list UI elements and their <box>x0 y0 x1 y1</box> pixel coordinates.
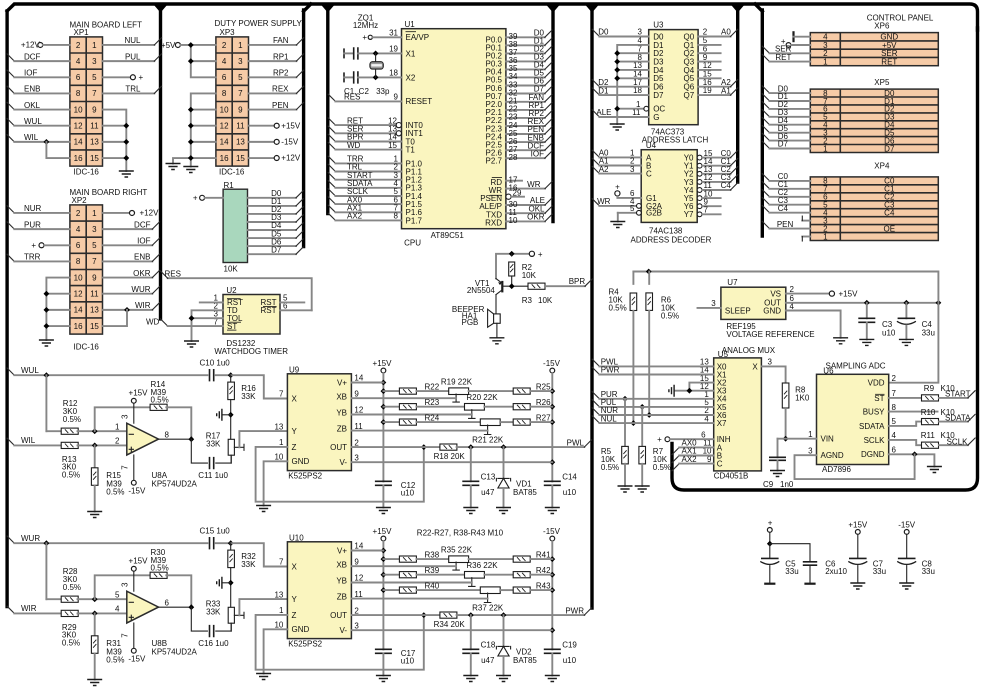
svg-text:1: 1 <box>823 232 828 241</box>
svg-text:C4: C4 <box>778 204 789 213</box>
svg-text:Z: Z <box>292 611 297 620</box>
svg-text:3: 3 <box>808 446 813 455</box>
resistor R8 1K0 <box>782 383 810 442</box>
svg-text:3: 3 <box>630 165 635 174</box>
wire WUL input <box>7 366 207 378</box>
svg-text:5: 5 <box>92 241 97 250</box>
U6 name AD7896 <box>822 465 851 474</box>
terminal + at EA/VP <box>362 33 401 42</box>
wire REX from XP3 <box>249 85 304 94</box>
connector XP2 label IDC-16 <box>74 343 100 352</box>
cable bus at x304 (FAN..PEN, D0-D7 of R1) <box>302 10 305 247</box>
resistor R31 M39 0.5% <box>91 613 124 679</box>
svg-text:G: G <box>653 113 659 122</box>
wire D1 from CPU pin 38 P0.1 <box>486 37 552 53</box>
svg-text:0.5%: 0.5% <box>661 312 679 321</box>
wire U2 pin5 stub <box>280 301 304 303</box>
wire U3 Q1 stub <box>698 44 721 46</box>
svg-text:10: 10 <box>274 621 283 630</box>
wire ALE from CPU pin 30 <box>479 196 552 211</box>
wire SDATA to CPU pin 4 P1.3 <box>328 179 422 193</box>
svg-text:WATCHDOG TIMER: WATCHDOG TIMER <box>214 347 288 356</box>
svg-text:11: 11 <box>90 290 99 299</box>
svg-text:TRL: TRL <box>125 85 141 94</box>
wire U9 XB <box>351 397 456 399</box>
resistor R3 10K <box>522 283 553 305</box>
cable bus right side and bottom (START,SDATA,SCLK,AX0-AX2) <box>672 28 978 490</box>
terminal -15V rail U10 <box>543 527 561 649</box>
wire D1 to U3 pin18 <box>592 86 649 95</box>
svg-text:28: 28 <box>509 153 518 162</box>
connector XP6 table <box>810 33 938 66</box>
resistor R7 10K 0.5% <box>639 404 671 486</box>
svg-text:+: + <box>31 241 36 250</box>
svg-text:u47: u47 <box>481 488 495 497</box>
ground left-pointing for U5 <box>669 385 674 397</box>
trim row labels R38..R43 <box>425 545 552 612</box>
svg-text:XP3: XP3 <box>220 28 236 37</box>
svg-text:-15V: -15V <box>543 359 561 368</box>
wire C0 to XP4 <box>762 172 810 181</box>
svg-text:R19 22K: R19 22K <box>441 377 473 386</box>
svg-text:6: 6 <box>76 73 81 82</box>
wire U8A output <box>159 436 195 442</box>
svg-text:33u: 33u <box>873 567 886 576</box>
watchdog U2 DS1232 box <box>223 295 280 335</box>
ground for R7 <box>635 486 650 492</box>
label C1, C2 33p <box>344 87 390 96</box>
svg-text:1: 1 <box>823 144 828 153</box>
svg-text:WD: WD <box>146 317 160 326</box>
wire R17 to Y pin <box>239 431 287 447</box>
wire A1 to U4 pin2 <box>592 157 641 166</box>
svg-text:u10: u10 <box>563 656 577 665</box>
svg-text:14: 14 <box>354 374 363 383</box>
svg-text:BAT85: BAT85 <box>513 656 537 665</box>
svg-text:C10 1u0: C10 1u0 <box>200 359 231 368</box>
wire U9 YB <box>351 414 471 416</box>
svg-text:ST: ST <box>227 322 237 331</box>
wire WD to U2 pin7 <box>146 317 223 326</box>
svg-text:7: 7 <box>279 558 284 567</box>
wire D0 from R1 <box>248 189 304 198</box>
resistor network R1 <box>223 189 247 262</box>
terminal +12V at XP1 pin2 <box>21 41 70 50</box>
svg-text:RXD: RXD <box>485 219 502 228</box>
svg-text:WIL: WIL <box>21 436 36 445</box>
svg-text:4: 4 <box>892 431 897 440</box>
wire WUL to XP1 <box>7 117 70 126</box>
svg-text:WD: WD <box>347 141 361 150</box>
svg-text:1: 1 <box>238 41 243 50</box>
svg-text:CPU: CPU <box>404 238 421 247</box>
wire WUR input <box>7 534 207 546</box>
capacitor C14 u10 <box>544 473 578 508</box>
svg-text:START: START <box>945 390 971 399</box>
svg-text:+12V: +12V <box>281 154 301 163</box>
svg-text:7: 7 <box>279 390 284 399</box>
svg-text:OE: OE <box>884 224 896 233</box>
svg-text:R39: R39 <box>425 566 440 575</box>
svg-text:10: 10 <box>74 273 83 282</box>
svg-text:A1: A1 <box>721 86 731 95</box>
svg-text:PGB: PGB <box>461 318 478 327</box>
svg-text:VOLTAGE REFERENCE: VOLTAGE REFERENCE <box>726 330 814 339</box>
svg-text:DUTY POWER SUPPLY: DUTY POWER SUPPLY <box>215 19 303 28</box>
svg-text:A2: A2 <box>599 165 609 174</box>
svg-text:XB: XB <box>336 393 347 402</box>
wire WR from CPU pin 16 <box>489 180 553 195</box>
U9 pin names <box>292 378 348 467</box>
svg-text:X: X <box>292 394 298 403</box>
svg-text:10: 10 <box>274 453 283 462</box>
svg-text:OKL: OKL <box>24 101 41 110</box>
svg-text:IDC-16: IDC-16 <box>74 168 100 177</box>
ground for U10 GND <box>256 674 271 680</box>
svg-text:8: 8 <box>76 89 81 98</box>
svg-text:12: 12 <box>74 122 83 131</box>
wire C15 to U10 X <box>216 540 288 566</box>
pin 9 RESET <box>394 93 433 107</box>
svg-text:RET: RET <box>775 53 791 62</box>
ground for C17 <box>376 676 391 682</box>
wire D4 to XP5 <box>762 116 810 125</box>
svg-text:13: 13 <box>274 422 283 431</box>
U3 pin1 OC bubble <box>644 106 649 111</box>
wire D0 from CPU pin 39 P0.0 <box>486 29 552 45</box>
voltage reference U7 label <box>727 278 738 287</box>
svg-text:14: 14 <box>74 138 83 147</box>
svg-text:3: 3 <box>354 621 359 630</box>
svg-text:IOF: IOF <box>137 237 150 246</box>
resistors R39,R36,R42 trim row YB <box>383 572 552 587</box>
svg-text:+12V: +12V <box>140 209 160 218</box>
pin 19 X1 <box>373 45 416 59</box>
wire WR to U4 pin4 G2A <box>592 197 641 208</box>
svg-text:5: 5 <box>92 73 97 82</box>
wire U4 Y5 output <box>697 189 720 200</box>
ground for beeper <box>489 338 504 344</box>
svg-text:2: 2 <box>76 41 81 50</box>
connector XP3 title <box>215 19 303 37</box>
svg-text:7: 7 <box>892 389 897 398</box>
wire FAN from XP3 <box>249 36 304 45</box>
svg-text:10: 10 <box>220 105 229 114</box>
terminal + at R1 <box>193 194 223 203</box>
terminal +5V at XP3 <box>161 41 191 50</box>
wire XP2 pins 10,12,14,16 ground rail <box>44 278 70 340</box>
wire IOF to XP1 <box>7 69 70 78</box>
svg-text:R23: R23 <box>425 398 440 407</box>
svg-text:GND: GND <box>292 625 310 634</box>
svg-text:12: 12 <box>74 290 83 299</box>
svg-text:C: C <box>717 460 723 469</box>
analog mux U5 CD4051B box <box>714 358 762 471</box>
svg-text:4: 4 <box>222 57 227 66</box>
wire NUL from XP1 <box>103 36 162 45</box>
wire SDATA from R10 <box>945 414 975 423</box>
resistor R10 K10 <box>889 408 968 426</box>
svg-text:V-: V- <box>339 458 347 467</box>
wire D3 from R1 <box>248 213 304 222</box>
svg-text:16: 16 <box>74 154 83 163</box>
wire beeper to ground <box>496 323 498 338</box>
U4 function ADDRESS DECODER <box>631 236 712 245</box>
svg-text:WR: WR <box>527 180 541 189</box>
address latch U3 label <box>653 21 664 30</box>
wire U8B +15V <box>120 556 148 591</box>
svg-text:8: 8 <box>222 89 227 98</box>
wire TRR to XP2 <box>7 253 70 262</box>
svg-text:G2B: G2B <box>646 209 662 218</box>
wire D4 from CPU pin 35 P0.4 <box>486 61 552 77</box>
svg-text:33K: 33K <box>241 560 256 569</box>
svg-text:R43: R43 <box>536 581 551 590</box>
wire DCF from CPU pin 27 P2.6 <box>486 141 552 157</box>
svg-text:9: 9 <box>394 93 399 102</box>
wire NUR to U5 <box>592 406 714 415</box>
cable harness top bus <box>7 4 977 30</box>
resistor R30 M39 0.5% feedback <box>95 548 192 607</box>
svg-text:10K: 10K <box>522 271 537 280</box>
svg-text:D1: D1 <box>598 86 609 95</box>
wire U4 Y7 output <box>697 206 720 217</box>
wire D2 from R1 <box>248 205 304 214</box>
svg-text:11: 11 <box>236 122 245 131</box>
ground left-pointing at R32 <box>217 577 231 589</box>
svg-text:OUT: OUT <box>330 443 347 452</box>
ground for VD2 <box>496 676 511 682</box>
svg-text:YB: YB <box>336 409 347 418</box>
svg-text:C4: C4 <box>721 181 732 190</box>
svg-text:TRR: TRR <box>24 253 41 262</box>
pin 17 RD stub <box>490 176 522 187</box>
U10 pin names <box>292 546 348 635</box>
svg-text:8: 8 <box>165 430 170 439</box>
wire NUL to U5 <box>592 414 714 423</box>
crystal ZQ1 12MHz <box>353 14 383 78</box>
wire PEN to XP4 OE <box>762 220 810 229</box>
svg-text:-15V: -15V <box>543 527 561 536</box>
svg-text:R36 22K: R36 22K <box>466 561 498 570</box>
ground bar at XP6 GND <box>794 31 811 42</box>
address latch U3 74AC373 box <box>649 30 698 125</box>
wire PWR to U5 <box>592 366 714 375</box>
wire U5 X2,X3 to ground <box>675 383 714 394</box>
svg-text:R9: R9 <box>924 384 935 393</box>
wire VT1 base to R3 <box>502 283 528 289</box>
svg-text:33u: 33u <box>922 567 935 576</box>
stub at XP4 pin1 <box>802 237 810 242</box>
wire U2 pins2,3 to ground <box>189 310 223 341</box>
svg-text:XP6: XP6 <box>874 21 890 30</box>
capacitor C17 u10 <box>375 649 416 676</box>
svg-text:XP1: XP1 <box>74 28 90 37</box>
svg-text:0.5%: 0.5% <box>62 471 80 480</box>
svg-text:RST: RST <box>261 306 277 315</box>
svg-text:15: 15 <box>388 141 397 150</box>
svg-text:R10: R10 <box>921 408 936 417</box>
svg-text:EA/VP: EA/VP <box>406 33 430 42</box>
terminal +15V at XP3 <box>249 121 301 130</box>
svg-text:IOF: IOF <box>531 149 544 158</box>
svg-text:1: 1 <box>115 422 120 431</box>
capacitor C7 33u <box>848 558 886 583</box>
svg-text:2: 2 <box>222 41 227 50</box>
svg-text:0.5%: 0.5% <box>601 463 619 472</box>
connector XP3 IDC-16 table <box>216 37 249 166</box>
ground for C7 <box>850 583 865 589</box>
wire D3 to XP5 <box>762 108 810 117</box>
wire U6 BUSY stub <box>889 411 938 413</box>
watchdog U2 name DS1232 <box>226 339 255 348</box>
U5 pin names <box>717 362 759 468</box>
svg-text:12: 12 <box>354 574 363 583</box>
svg-text:Q7: Q7 <box>684 91 695 100</box>
svg-text:15: 15 <box>90 154 99 163</box>
wire AX2 to U5 <box>672 455 714 471</box>
U3 pin names <box>653 32 695 122</box>
svg-text:PEN: PEN <box>777 220 794 229</box>
cable split to CPU-right bus <box>544 3 561 13</box>
svg-text:VS: VS <box>770 289 781 298</box>
svg-text:3: 3 <box>238 57 243 66</box>
terminal + at XP6 +5V <box>781 37 810 47</box>
CPU U1 name <box>404 231 464 247</box>
ground for C18 <box>463 676 478 682</box>
sampling ADC title <box>826 361 886 370</box>
U6 pin numbers <box>808 374 896 456</box>
svg-text:PEN: PEN <box>272 101 289 110</box>
svg-text:D7: D7 <box>884 144 895 153</box>
wire +5REF distribution <box>633 269 938 383</box>
U4 name 74AC138 <box>649 227 683 236</box>
pin 29 PSEN stub <box>480 188 524 203</box>
svg-text:AGND: AGND <box>821 451 844 460</box>
svg-text:IOF: IOF <box>24 69 37 78</box>
wire U4 Y2 output <box>697 165 738 176</box>
svg-text:X2: X2 <box>406 73 416 82</box>
CPU U1 label <box>405 20 416 29</box>
svg-text:12MHz: 12MHz <box>353 21 378 30</box>
multiplier U10 K525PS2 box <box>287 542 351 639</box>
wire START to CPU pin 3 P1.2 <box>328 171 422 185</box>
svg-text:P1.7: P1.7 <box>406 216 423 225</box>
wire AX2 to CPU pin 8 P1.7 <box>328 212 422 226</box>
svg-text:19: 19 <box>389 45 398 54</box>
cable harness left bus <box>5 11 8 607</box>
control panel title <box>867 13 934 30</box>
svg-text:C13: C13 <box>481 473 496 482</box>
svg-text:+15V: +15V <box>373 527 393 536</box>
svg-text:+: + <box>193 194 198 203</box>
svg-text:R38: R38 <box>425 550 440 559</box>
wire +5V rail XP3 pins 2,4,6 <box>188 42 216 77</box>
watchdog U2 pin numbers <box>214 294 288 327</box>
label R22-R27, R38-R43 M10 <box>417 529 504 538</box>
wire REX from CPU pin 24 P2.3 <box>486 117 552 133</box>
wire TRR to CPU pin 1 P1.0 <box>328 155 422 169</box>
svg-text:0.5%: 0.5% <box>151 396 169 405</box>
wire U4 Y1 output <box>697 157 738 168</box>
svg-text:AT89C51: AT89C51 <box>431 231 465 240</box>
svg-text:C15 1u0: C15 1u0 <box>200 527 231 536</box>
svg-text:WIL: WIL <box>24 133 39 142</box>
wire U5 X output <box>761 358 785 384</box>
sampling ADC U6 AD7896 box <box>817 374 889 464</box>
svg-text:RET: RET <box>881 57 897 66</box>
svg-text:U1: U1 <box>405 20 416 29</box>
ground for U4 <box>610 222 625 228</box>
svg-text:3: 3 <box>120 582 129 587</box>
wire +V to VT1 emitter/R2 <box>496 251 529 279</box>
svg-text:RP1: RP1 <box>273 52 289 61</box>
svg-text:OKR: OKR <box>133 269 151 278</box>
resistor R12 3K0 0.5% <box>46 375 126 434</box>
diode VD1 BAT85 <box>496 447 537 507</box>
svg-text:V-: V- <box>339 626 347 635</box>
wire WIR input <box>7 604 62 613</box>
wire AX1 to CPU pin 7 P1.6 <box>328 204 422 218</box>
wire U4 pin5 G2B to ground <box>618 204 642 222</box>
connector XP1 IDC-16 table <box>70 37 103 166</box>
wire D6 from CPU pin 33 P0.6 <box>486 77 552 93</box>
resistors R24,R21,R27 trim row ZB <box>383 419 552 435</box>
svg-text:2: 2 <box>354 438 359 447</box>
svg-text:u10: u10 <box>401 657 415 666</box>
svg-text:29: 29 <box>513 188 522 197</box>
svg-text:+15V: +15V <box>373 359 393 368</box>
capacitor C8 33u <box>897 558 935 583</box>
svg-text:7: 7 <box>92 89 97 98</box>
wire U10 Z to OUT <box>256 612 427 670</box>
wire RES from U2 pin6 <box>161 269 312 310</box>
svg-text:R42: R42 <box>536 566 551 575</box>
wire A0 from U3 pin2 <box>698 28 738 37</box>
ground for U9 GND <box>256 506 271 512</box>
op-amp U8A KP574UD2A <box>115 422 197 488</box>
ground for R31 <box>87 680 102 686</box>
svg-text:WIR: WIR <box>21 604 37 613</box>
op-amp U8B KP574UD2A <box>115 590 197 656</box>
watchdog U2 label <box>226 286 237 295</box>
svg-text:16: 16 <box>74 322 83 331</box>
terminal -15V at C8 <box>898 520 916 558</box>
wire U3 Q2 stub <box>698 52 721 54</box>
U10 pin numbers <box>274 542 363 631</box>
svg-text:9: 9 <box>92 273 97 282</box>
wire D1 to XP5 <box>762 92 810 101</box>
wire U3 Q3 stub <box>698 61 721 63</box>
resistor R14 M39 0.5% feedback <box>95 380 192 439</box>
svg-text:C9: C9 <box>763 480 774 489</box>
wire XP1 pins 9,11,13,15 ground rail <box>103 110 130 171</box>
svg-text:R27: R27 <box>536 413 551 422</box>
wire A0 to U4 pin1 <box>592 149 641 158</box>
svg-text:ENB: ENB <box>134 253 150 262</box>
svg-text:0.5%: 0.5% <box>63 415 81 424</box>
terminal + at XP1 pin5 <box>103 73 144 82</box>
svg-text:9: 9 <box>354 557 359 566</box>
wire WUR from XP2 <box>103 285 160 294</box>
connector XP2 IDC-16 table <box>70 205 103 334</box>
wire BPR to CPU pin 14 <box>328 133 415 147</box>
svg-text:+15V: +15V <box>281 121 301 130</box>
svg-text:KP574UD2A: KP574UD2A <box>152 479 198 488</box>
svg-text:18: 18 <box>389 69 398 78</box>
svg-text:2: 2 <box>354 606 359 615</box>
svg-text:33K: 33K <box>206 439 221 448</box>
